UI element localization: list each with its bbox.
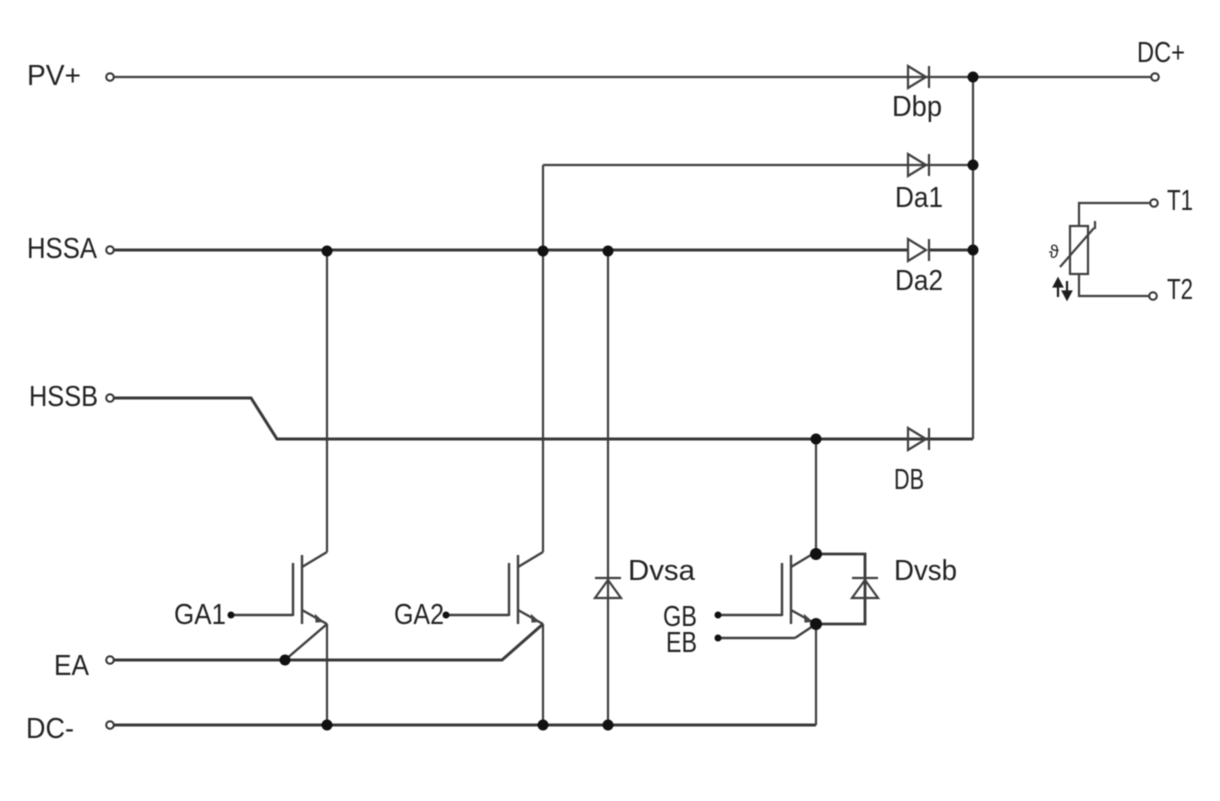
- svg-text:EA: EA: [54, 650, 90, 682]
- svg-text:DC+: DC+: [1137, 37, 1185, 69]
- svg-text:DC-: DC-: [26, 713, 74, 745]
- svg-text:ϑ: ϑ: [1049, 242, 1059, 262]
- svg-text:HSSA: HSSA: [27, 233, 98, 265]
- svg-text:Dbp: Dbp: [892, 91, 942, 123]
- svg-text:EB: EB: [666, 627, 697, 659]
- svg-text:T1: T1: [1167, 185, 1193, 217]
- svg-text:Da2: Da2: [895, 265, 943, 297]
- svg-text:GA2: GA2: [394, 599, 444, 631]
- svg-text:PV+: PV+: [27, 60, 81, 92]
- svg-text:Dvsa: Dvsa: [628, 555, 696, 587]
- svg-text:DB: DB: [894, 464, 924, 496]
- svg-text:HSSB: HSSB: [29, 381, 98, 413]
- svg-text:GA1: GA1: [174, 599, 226, 631]
- svg-text:Da1: Da1: [895, 182, 943, 214]
- svg-text:T2: T2: [1167, 274, 1193, 306]
- svg-text:Dvsb: Dvsb: [894, 555, 957, 587]
